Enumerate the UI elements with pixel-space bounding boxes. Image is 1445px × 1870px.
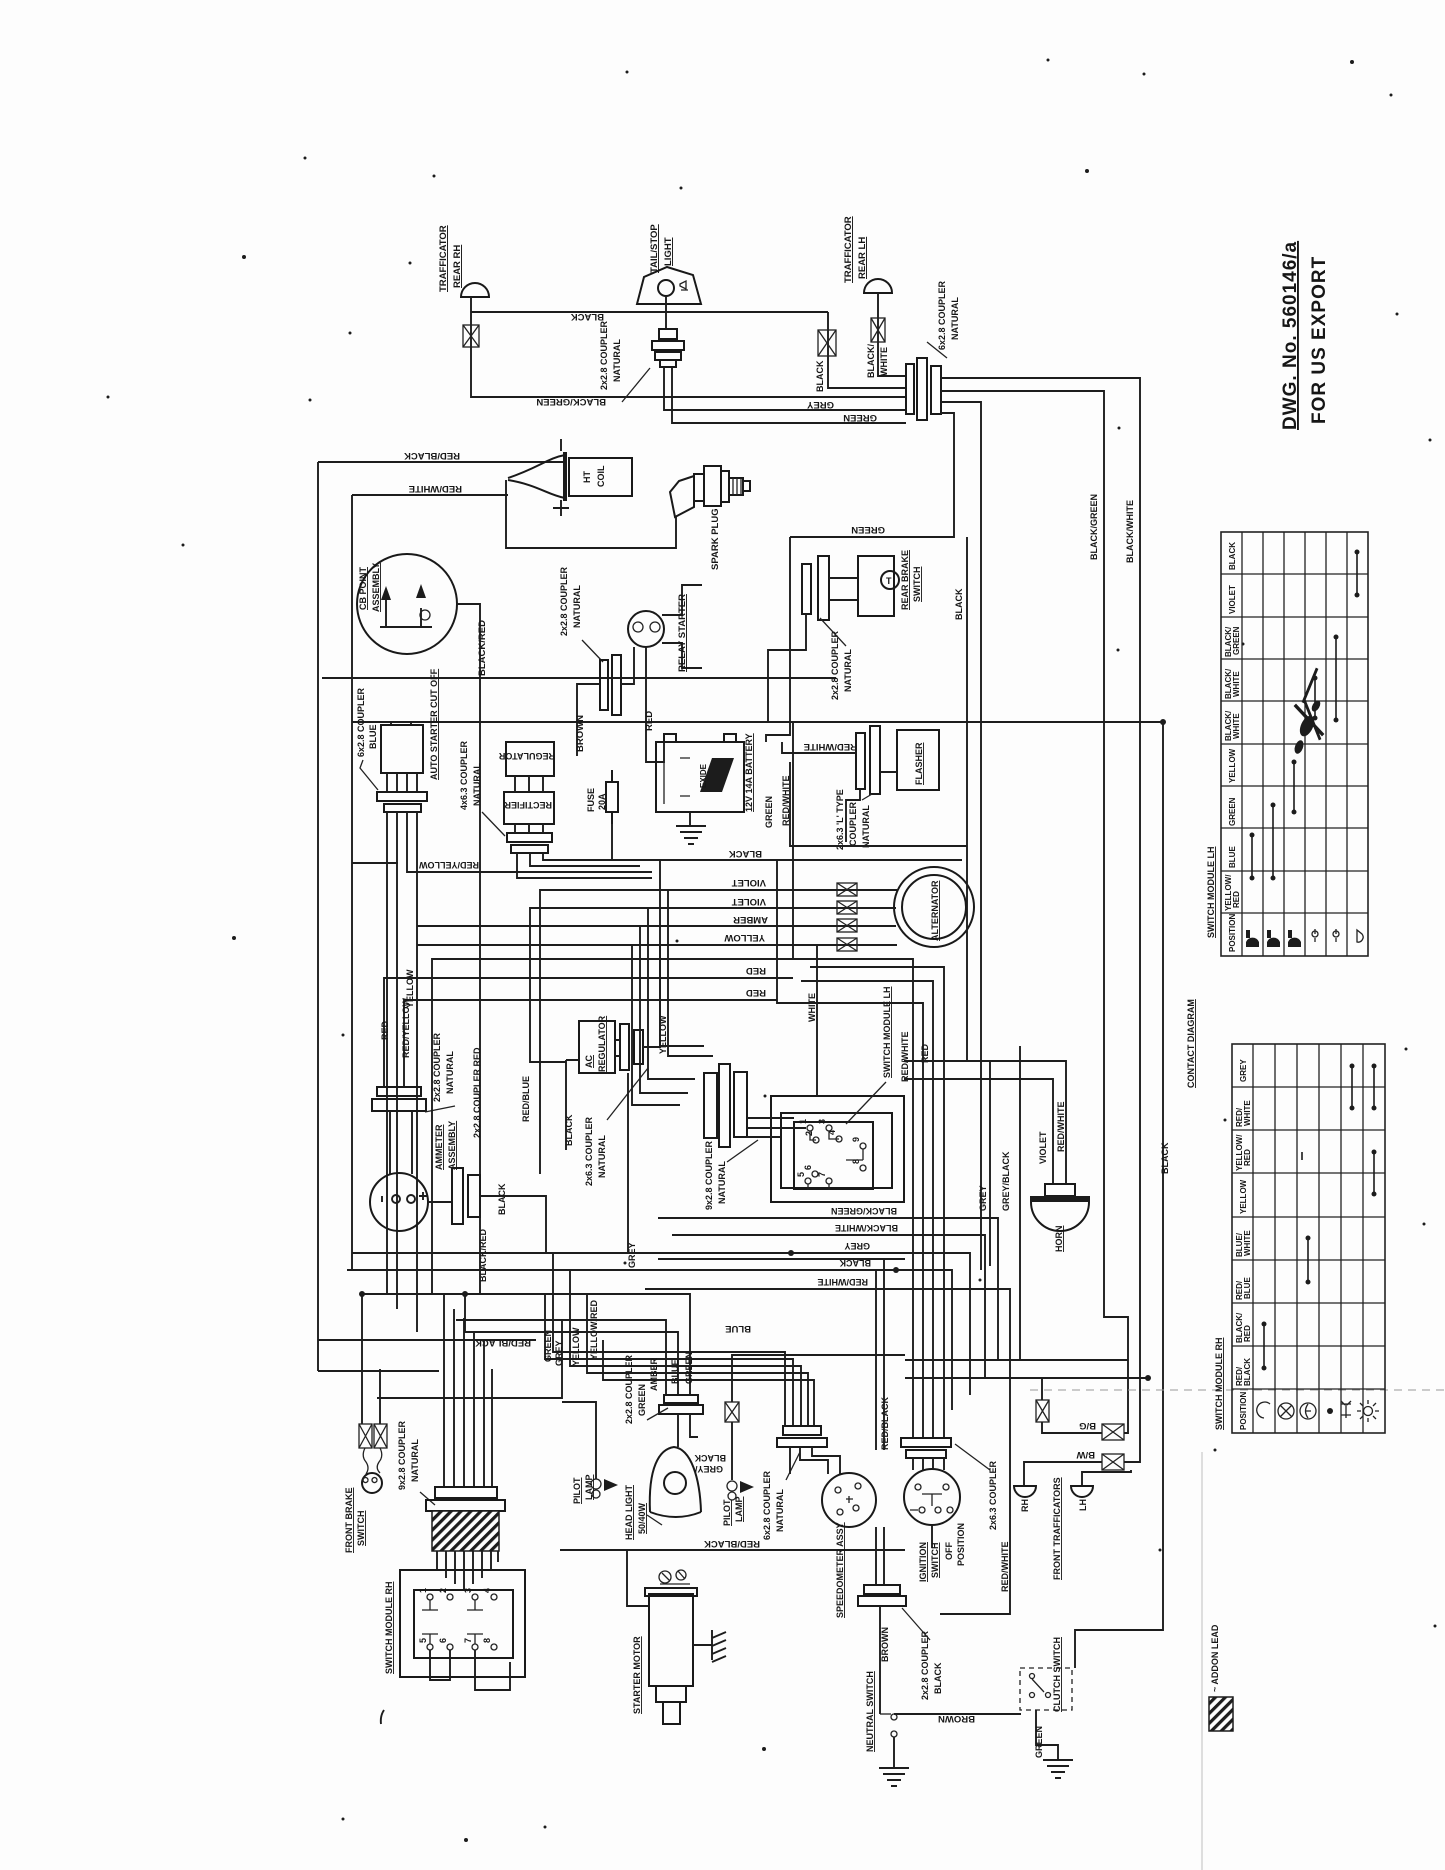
svg-text:RED/BLACK: RED/BLACK	[880, 1397, 890, 1450]
connector LH trafficator	[871, 318, 885, 342]
alternator outer	[894, 867, 974, 947]
svg-text:3: 3	[463, 1588, 473, 1593]
svg-text:BLACK/GREEN: BLACK/GREEN	[831, 1206, 897, 1216]
svg-text:POSITION: POSITION	[1239, 1392, 1248, 1430]
wire coupler out2 black/green	[941, 391, 1128, 1360]
horn plate	[1030, 1196, 1090, 1202]
svg-text:GREEN: GREEN	[684, 1352, 694, 1384]
svg-text:RED: RED	[746, 987, 766, 998]
wire LH trafficator stem	[878, 293, 906, 376]
alternator inner	[902, 875, 966, 939]
svg-text:DWG. No. 560146/a: DWG. No. 560146/a	[1280, 241, 1301, 430]
pilot lamp A	[591, 1479, 601, 1489]
bowtie B/G	[1102, 1424, 1124, 1440]
bus VIOLET y890	[540, 890, 897, 1000]
starter ground	[712, 1630, 726, 1662]
svg-text:SPARK PLUG: SPARK PLUG	[710, 508, 721, 570]
coupler 9x2.8 bars	[704, 1064, 747, 1147]
leader blue coupler	[360, 760, 378, 790]
svg-text:TRAFFICATOR: TRAFFICATOR	[843, 216, 854, 283]
svg-text:GREEN: GREEN	[764, 796, 774, 828]
table RH icon bird	[1341, 1401, 1351, 1418]
wire tail GREEN	[672, 367, 906, 423]
svg-text:ALTERNATOR: ALTERNATOR	[930, 880, 940, 941]
HT coil horn funnel	[508, 455, 565, 498]
svg-text:COUPLER: COUPLER	[848, 801, 858, 846]
wires red/black double	[876, 1259, 884, 1450]
ammeter assembly circle	[370, 1173, 428, 1231]
svg-text:REAR BRAKE: REAR BRAKE	[900, 550, 910, 610]
bus VIOLET y908	[530, 908, 896, 1062]
svg-text:GREY: GREY	[978, 1185, 988, 1211]
leader speedo coupler	[786, 1452, 800, 1480]
svg-text:BLUE: BLUE	[670, 1360, 680, 1385]
wires box to coupler blue	[387, 773, 417, 792]
svg-text:PILOT: PILOT	[722, 1499, 732, 1526]
wire neutral drop	[879, 1606, 881, 1714]
svg-text:BLACK: BLACK	[1243, 1358, 1252, 1386]
svg-text:B/W: B/W	[1077, 1449, 1096, 1460]
svg-text:HORN: HORN	[1054, 1226, 1064, 1253]
svg-text:VIOLET: VIOLET	[1038, 1131, 1048, 1164]
rectifier coupler bars	[507, 833, 552, 853]
coupler 2x2.8 tail light	[652, 329, 684, 367]
svg-text:5: 5	[796, 1172, 806, 1177]
wire black rear vertical	[966, 537, 968, 1061]
svg-text:GREEN: GREEN	[843, 412, 877, 423]
leader ammeter coupler	[425, 1106, 455, 1112]
tail light filament mark	[680, 281, 688, 290]
wire red/blue vertical	[539, 1000, 541, 1174]
table RH connection marks	[1262, 1064, 1377, 1371]
svg-text:IGNITION: IGNITION	[918, 1542, 928, 1582]
wire right long vertical from 718	[1075, 722, 1163, 1668]
front brake connector 2	[374, 1424, 387, 1448]
svg-text:HEAD LIGHT: HEAD LIGHT	[624, 1485, 634, 1541]
wire grey long vertical	[989, 1061, 991, 1266]
svg-text:REAR LH: REAR LH	[857, 237, 868, 279]
svg-text:YELLOW: YELLOW	[1239, 1179, 1248, 1214]
flasher box	[897, 730, 939, 790]
wires ammeter coupler down	[390, 1111, 412, 1174]
pin box outer	[771, 1096, 904, 1202]
svg-text:ASSEMBLY: ASSEMBLY	[447, 1121, 457, 1170]
svg-text:GREY: GREY	[844, 1241, 870, 1251]
svg-text:REGULATOR: REGULATOR	[498, 751, 555, 761]
ignition stub	[931, 1525, 933, 1548]
leader relay coupler	[582, 640, 603, 662]
wire left vertical x362 lower	[361, 1294, 363, 1424]
ammeter coupler bars	[372, 1087, 426, 1111]
wire AC reg link	[615, 1040, 620, 1056]
table RH icon sun	[1357, 1400, 1379, 1422]
svg-text:NATURAL: NATURAL	[950, 297, 960, 340]
wire b/g bowtie link	[1124, 1360, 1128, 1433]
HT coil minus tick	[560, 439, 562, 451]
wire blue to headlight	[465, 1294, 678, 1395]
stray slash mark	[381, 1710, 384, 1724]
pin 8	[860, 1165, 866, 1171]
wire speedo down	[876, 1527, 884, 1585]
wire RED/YELLOW horizontal	[407, 812, 652, 872]
svg-text:FRONT BRAKE: FRONT BRAKE	[344, 1488, 354, 1554]
svg-text:SWITCH MODULE LH: SWITCH MODULE LH	[1206, 847, 1216, 939]
SEC-TOP	[318, 439, 1170, 1668]
svg-text:AC: AC	[584, 1055, 594, 1068]
svg-text:2x6.3 COUPLER: 2x6.3 COUPLER	[988, 1460, 998, 1530]
wire yellow from AC reg	[643, 945, 660, 1047]
pin links	[808, 1131, 863, 1190]
wire coupler out4 green loop	[790, 413, 954, 537]
svg-text:BLUE: BLUE	[1228, 846, 1237, 868]
switch module RH table grid	[1232, 1044, 1385, 1433]
svg-text:SWITCH MODULE RH: SWITCH MODULE RH	[384, 1582, 394, 1675]
wire left frame inner vertical	[351, 495, 353, 1270]
svg-text:BLACK/: BLACK/	[866, 344, 876, 378]
wire rear brake links	[829, 578, 858, 600]
svg-text:9: 9	[851, 1137, 861, 1142]
wire clutch ground	[1036, 1710, 1058, 1760]
wire bowtie drop from BLACK run	[828, 312, 906, 388]
svg-text:WHITE: WHITE	[1232, 671, 1241, 697]
wire battery minus to ground	[689, 812, 691, 826]
bus grey y1253	[352, 1253, 970, 1395]
leader 4x6.3	[482, 812, 505, 836]
svg-text:7: 7	[463, 1638, 473, 1643]
wires into hatch coupler	[444, 1294, 492, 1487]
svg-text:BLACK/WHITE: BLACK/WHITE	[1125, 500, 1135, 563]
front brake pins	[363, 1478, 377, 1483]
svg-text:RED: RED	[1243, 1149, 1252, 1166]
svg-text:POSITION: POSITION	[1228, 914, 1237, 952]
svg-text:SWITCH: SWITCH	[912, 567, 922, 603]
front brake connector 1	[359, 1424, 372, 1448]
wire white vertical	[816, 945, 818, 1096]
svg-text:2x2.8 COUPLER RED: 2x2.8 COUPLER RED	[472, 1047, 482, 1138]
junction y1294	[462, 1291, 468, 1297]
junction y1378	[1145, 1375, 1151, 1381]
svg-text:BLUE: BLUE	[368, 725, 378, 750]
wire green to coupler	[790, 536, 841, 538]
pilot lamp B arrow	[740, 1481, 754, 1493]
svg-text:STARTER MOTOR: STARTER MOTOR	[632, 1636, 642, 1714]
svg-text:T: T	[886, 576, 892, 586]
wire red/white battery right	[782, 742, 856, 753]
wire y1360 horizontal	[905, 1359, 1128, 1361]
wire bottom-left y1340	[318, 1339, 536, 1341]
connector mid bowtie	[818, 330, 836, 356]
wires reg-rect	[515, 776, 543, 792]
svg-text:NATURAL: NATURAL	[775, 1489, 785, 1532]
svg-text:9x2.8 COUPLER: 9x2.8 COUPLER	[397, 1420, 407, 1490]
svg-text:1: 1	[418, 1588, 428, 1593]
svg-text:BROWN: BROWN	[880, 1627, 890, 1662]
svg-text:REAR RH: REAR RH	[452, 245, 463, 288]
starter motor bolts	[659, 1570, 690, 1584]
svg-text:FLASHER: FLASHER	[914, 742, 924, 785]
bus RED y1000	[404, 1000, 777, 1087]
wire relay to coupler	[621, 647, 634, 684]
svg-text:NATURAL: NATURAL	[445, 1051, 455, 1094]
ammeter out coupler	[452, 1168, 480, 1224]
table LH connection marks	[1250, 550, 1360, 881]
leader flasher coupler	[862, 794, 872, 800]
SEC-MID	[352, 722, 1151, 1614]
tail/stop light bulb	[658, 280, 674, 296]
svg-text:AMMETER: AMMETER	[434, 1124, 444, 1170]
svg-text:RED/BLACK: RED/BLACK	[404, 450, 460, 461]
wire ammeter out	[480, 1196, 546, 1253]
svg-text:LAMP: LAMP	[734, 1497, 744, 1523]
battery box	[656, 742, 744, 812]
svg-text:VIOLET: VIOLET	[731, 877, 766, 888]
svg-text:RED/BLUE: RED/BLUE	[521, 1076, 531, 1122]
wire bottom-left y1369	[318, 1370, 439, 1372]
svg-text:EXIDE: EXIDE	[699, 763, 708, 788]
pilot lamp B	[727, 1481, 737, 1491]
svg-text:50/40W: 50/40W	[637, 1502, 647, 1534]
svg-text:POSITION: POSITION	[956, 1523, 966, 1566]
wire x944 drop	[810, 967, 944, 1438]
battery inner line	[664, 750, 690, 804]
wire black AC vertical	[566, 1060, 579, 1150]
rear brake switch circle	[881, 571, 899, 589]
wire left vertical x380 lower	[379, 1369, 381, 1424]
pilot lamp B wire	[732, 1355, 905, 1480]
SEC-LEFT	[352, 537, 974, 1332]
pin 5	[805, 1178, 811, 1184]
relay starter circle	[628, 611, 664, 647]
wire coil bottom loop	[506, 480, 676, 548]
HT coil plus	[553, 500, 569, 516]
pilot lamp B bowtie	[725, 1402, 739, 1422]
module RH pins top	[422, 1594, 497, 1610]
flasher coupler	[856, 726, 880, 794]
svg-text:LIGHT: LIGHT	[663, 237, 674, 266]
svg-text:GREEN: GREEN	[543, 1330, 553, 1362]
pin box mid	[781, 1113, 892, 1188]
hatch coupler bar2	[426, 1500, 505, 1511]
svg-text:GREY: GREY	[1239, 1059, 1248, 1082]
svg-text:2x6.3 COUPLER: 2x6.3 COUPLER	[584, 1116, 594, 1186]
crease vertical	[1201, 1452, 1203, 1870]
wire brown bottom	[894, 1713, 1021, 1715]
pin box inner	[794, 1122, 873, 1189]
ignition pins	[910, 1484, 953, 1513]
svg-text:2x2.8 COUPLER: 2x2.8 COUPLER	[432, 1032, 442, 1102]
svg-text:BLUE: BLUE	[725, 1323, 751, 1334]
svg-text:COIL: COIL	[596, 465, 606, 487]
wires down-left bundle to speedo	[553, 1253, 785, 1426]
svg-text:SWITCH: SWITCH	[356, 1511, 366, 1547]
trafficator rear RH lamp	[461, 283, 489, 297]
svg-text:BLACK: BLACK	[694, 1453, 726, 1463]
wire flasher enclosure	[790, 762, 967, 846]
svg-text:RH: RH	[1020, 1499, 1030, 1512]
spark plug boot	[670, 476, 694, 517]
leader switch module LH	[846, 1082, 886, 1124]
svg-text:NATURAL: NATURAL	[843, 649, 853, 692]
wires rectifier down	[515, 824, 543, 833]
svg-text:4: 4	[482, 1588, 492, 1593]
horn feed horizontal 2	[904, 1079, 1053, 1184]
svg-text:YELLOW: YELLOW	[1228, 748, 1237, 783]
wire y1259	[658, 1258, 905, 1260]
ground battery	[676, 826, 706, 844]
front brake squiggles	[363, 1448, 382, 1474]
svg-text:REGULATOR: REGULATOR	[597, 1015, 607, 1072]
bus black y1270	[352, 1270, 952, 1410]
clutch switch box	[1020, 1668, 1072, 1710]
ammeter pins	[382, 1192, 427, 1203]
svg-text:HT: HT	[582, 471, 592, 483]
leader tail coupler	[622, 368, 650, 402]
svg-text:2: 2	[804, 1131, 814, 1136]
relay bracket bottom	[662, 643, 702, 668]
table LH header labels	[1224, 542, 1241, 952]
svg-text:GREEN: GREEN	[1034, 1726, 1044, 1758]
horn cap	[1045, 1184, 1075, 1196]
starter motor body	[645, 1588, 697, 1724]
wire fuse to battery bus	[611, 824, 613, 860]
module RH loops	[430, 1650, 450, 1680]
front trafficator LH dome	[1071, 1486, 1093, 1497]
auto starter cut off box	[381, 725, 423, 773]
bottom bus RED/BLACK y1550	[560, 1549, 905, 1551]
bowtie B/W	[1102, 1454, 1124, 1470]
stub y863	[352, 862, 398, 864]
junction grey bus	[788, 1250, 794, 1256]
wire ammeter right	[428, 1201, 452, 1203]
switch module RH inner box	[414, 1590, 513, 1658]
HT coil box	[569, 458, 632, 496]
svg-text:BLACK: BLACK	[1160, 1142, 1170, 1174]
pin 3	[826, 1125, 832, 1131]
svg-text:RED: RED	[1243, 1325, 1252, 1342]
wire coupler out1 black/white	[941, 378, 1140, 1378]
svg-text:GREEN: GREEN	[1228, 797, 1237, 826]
svg-text:~ ADDON LEAD: ~ ADDON LEAD	[1210, 1624, 1220, 1692]
svg-text:12V 14A BATTERY: 12V 14A BATTERY	[744, 733, 754, 812]
wires box top	[391, 722, 411, 725]
svg-text:AMBER: AMBER	[733, 914, 768, 925]
wire x933 drop	[801, 981, 933, 1438]
wire RH trafficator stem	[470, 297, 472, 392]
pin 7	[826, 1178, 832, 1184]
wire tail GREY	[664, 367, 906, 410]
starter ground wire	[693, 1644, 712, 1646]
svg-text:BLACK: BLACK	[954, 588, 964, 620]
front brake switch circle	[362, 1473, 382, 1493]
wires hatch to module	[437, 1551, 498, 1590]
table LH ink blot	[1293, 668, 1324, 755]
table RH position icons	[1257, 1402, 1316, 1419]
wires rectifier out	[517, 853, 652, 878]
svg-text:2x2.8 COUPLER: 2x2.8 COUPLER	[559, 566, 569, 636]
svg-text:RED: RED	[380, 1020, 390, 1040]
leader AC coupler	[607, 1068, 648, 1120]
svg-text:BLACK/GREEN: BLACK/GREEN	[1089, 494, 1099, 560]
svg-text:NATURAL: NATURAL	[572, 585, 582, 628]
svg-text:CB POINT: CB POINT	[358, 566, 368, 610]
svg-text:FRONT TRAFFICATORS: FRONT TRAFFICATORS	[1052, 1477, 1062, 1580]
table RH header labels	[1235, 1059, 1252, 1430]
AC regulator coupler	[620, 1024, 643, 1070]
coupler blue bars	[377, 792, 427, 812]
svg-text:8: 8	[482, 1638, 492, 1643]
wire BLACK/GREEN run	[471, 392, 906, 397]
svg-text:OFF: OFF	[944, 1542, 954, 1560]
svg-text:6x2.8 COUPLER: 6x2.8 COUPLER	[356, 687, 366, 757]
wire horizontal y718	[352, 721, 1163, 723]
svg-text:WHITE: WHITE	[879, 347, 889, 376]
wire rear brake down	[768, 614, 806, 722]
leader ignition coupler	[955, 1444, 990, 1470]
svg-text:BLUE: BLUE	[1243, 1277, 1252, 1299]
svg-text:NATURAL: NATURAL	[597, 1135, 607, 1178]
svg-text:RELAY STARTER: RELAY STARTER	[677, 594, 688, 672]
svg-text:BLACK: BLACK	[933, 1662, 943, 1694]
svg-text:PILOT: PILOT	[572, 1477, 582, 1504]
bus BLACK y860	[610, 859, 962, 861]
svg-text:9x2.8 COUPLER: 9x2.8 COUPLER	[704, 1140, 714, 1210]
pin 9	[860, 1143, 866, 1149]
svg-text:2x2.8 COUPLER: 2x2.8 COUPLER	[599, 320, 609, 390]
svg-text:GREY: GREY	[806, 399, 834, 410]
leader headlight coupler	[647, 1408, 668, 1420]
leader 6x2.8 rear	[927, 342, 947, 358]
wire b/w lower vertical	[1124, 1378, 1140, 1462]
wire x777 jog	[777, 860, 923, 1438]
speedo coupler bars	[777, 1426, 827, 1447]
svg-text:FOR US EXPORT: FOR US EXPORT	[1309, 256, 1330, 424]
wire y959 left extension	[432, 959, 793, 1294]
svg-text:2: 2	[438, 1588, 448, 1593]
rear brake switch coupler	[802, 556, 829, 620]
svg-text:GREEN: GREEN	[637, 1384, 647, 1416]
svg-text:BLACK: BLACK	[571, 311, 604, 322]
svg-text:BLACK: BLACK	[815, 360, 825, 392]
svg-text:ASSEMBLY: ASSEMBLY	[371, 563, 381, 612]
svg-text:RED/WHITE: RED/WHITE	[409, 483, 462, 494]
rectifier box	[504, 792, 554, 824]
wire neutral ground	[893, 1737, 895, 1768]
svg-text:20A: 20A	[597, 793, 607, 810]
svg-text:YELLOW: YELLOW	[724, 932, 765, 943]
trafficator rear LH lamp	[864, 279, 892, 293]
svg-text:5: 5	[418, 1638, 428, 1643]
relay bracket top	[662, 585, 702, 615]
bus red/white y1289	[645, 1289, 1010, 1614]
crease line	[1030, 1389, 1445, 1391]
headlight bottom arc	[650, 1512, 701, 1517]
junction y718	[1160, 719, 1166, 725]
wire front traffic vertical	[1042, 1378, 1102, 1433]
svg-text:RED/WHITE: RED/WHITE	[900, 1032, 910, 1083]
svg-text:BROWN: BROWN	[938, 1713, 975, 1724]
hatch coupler bar1	[435, 1487, 497, 1498]
wire bottom-left y1270	[347, 1269, 456, 1271]
SEC-CENter	[318, 1253, 1445, 1870]
svg-text:VIOLET: VIOLET	[1228, 585, 1237, 614]
svg-text:SWITCH MODULE RH: SWITCH MODULE RH	[1214, 1338, 1224, 1431]
svg-text:6x2.8 COUPLER: 6x2.8 COUPLER	[937, 280, 947, 350]
svg-text:BLACK/WHITE: BLACK/WHITE	[835, 1223, 898, 1233]
svg-text:LH: LH	[1078, 1499, 1088, 1511]
svg-text:RED: RED	[746, 965, 766, 976]
svg-text:NATURAL: NATURAL	[861, 805, 871, 848]
table LH position icons	[1246, 930, 1301, 947]
